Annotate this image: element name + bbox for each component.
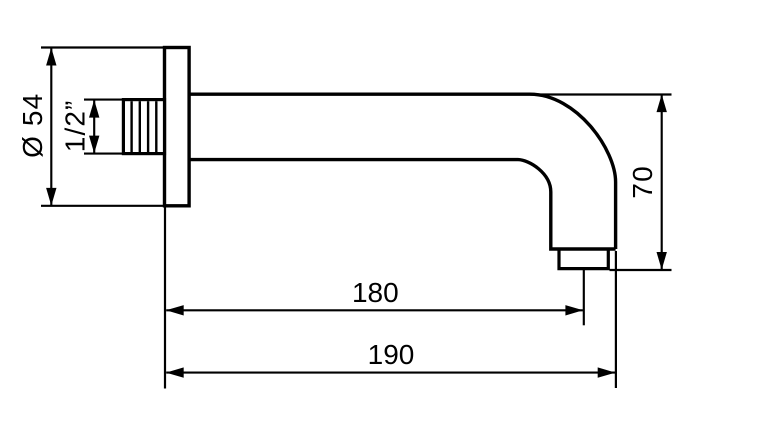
threaded inlet body (123, 100, 164, 154)
thread line 3 (147, 101, 149, 152)
dim 70 arrow up (657, 94, 667, 112)
svg-text:180: 180 (352, 277, 399, 308)
thread line 1 (130, 101, 132, 152)
spout tip (aerator) (559, 249, 608, 269)
svg-text:70: 70 (627, 165, 658, 198)
dim 180 right extension line (583, 270, 585, 326)
dim 190 line (166, 372, 615, 374)
dim 190 arrow right (598, 367, 616, 377)
thread line 2 (139, 101, 141, 152)
dim 190 arrow left (166, 367, 184, 377)
svg-text:Ø 54: Ø 54 (17, 93, 48, 158)
dim Ø54 extension line top (41, 46, 165, 48)
svg-text:190: 190 (368, 339, 415, 370)
left extension line down from flange (164, 206, 166, 389)
wall flange (165, 48, 190, 206)
dim Ø54 arrow up (46, 48, 56, 66)
dim 1/2in extension line bottom (84, 153, 123, 155)
spout tube outline (189, 94, 616, 249)
dim 180 arrow left (166, 305, 184, 315)
dim 70 extension line bottom (610, 269, 672, 271)
dim Ø54 extension line bottom (41, 205, 165, 207)
thread line 4 (155, 101, 157, 152)
dim 70 extension line top (530, 93, 672, 95)
dim 70 line (661, 95, 663, 270)
dim 180 arrow right (565, 305, 583, 315)
dim 180 line (166, 309, 583, 311)
dim 1/2in arrow down (89, 136, 99, 154)
svg-text:1/2”: 1/2” (59, 100, 90, 153)
dim 190 right extension line (615, 251, 617, 388)
dim 1/2in arrow up (89, 100, 99, 118)
dim 1/2in line (93, 100, 95, 153)
dim 1/2in extension line top (84, 99, 123, 101)
dim 70 arrow down (657, 252, 667, 270)
dim Ø54 arrow down (46, 188, 56, 206)
dim Ø54 line (50, 48, 52, 205)
